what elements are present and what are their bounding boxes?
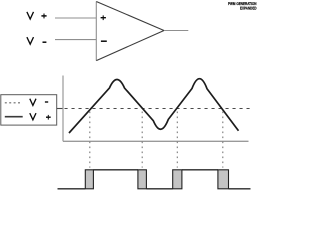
PWM high segment 2 xyxy=(182,169,218,171)
op-amp U1 comparator body xyxy=(96,2,164,61)
PWM transition rect 4 xyxy=(218,170,229,189)
triangle wave V+ xyxy=(69,79,239,133)
legend label V - xyxy=(30,99,36,106)
label V - xyxy=(27,37,34,44)
PWM low segment 2 xyxy=(146,188,172,190)
dashed drop line crossing 2 xyxy=(141,112,143,168)
wire V+ input xyxy=(55,17,96,19)
legend label V + xyxy=(30,113,36,120)
y axis xyxy=(62,76,64,142)
x axis xyxy=(63,140,249,142)
dashed drop line crossing 4 xyxy=(222,112,224,168)
label V + xyxy=(27,12,34,19)
legend box xyxy=(1,95,57,125)
dashed drop line crossing 1 xyxy=(89,112,91,168)
op-amp pin + (non-inverting) xyxy=(101,17,106,19)
PWM transition rect 1 xyxy=(85,170,93,189)
PWM transition rect 2 xyxy=(138,170,147,189)
op-amp pin - (inverting) xyxy=(101,40,107,42)
legend dotted sample V- xyxy=(5,102,22,104)
wire V- input xyxy=(55,39,96,41)
legend solid sample V+ xyxy=(5,116,23,118)
PWM low segment 3 xyxy=(229,188,251,190)
PWM low segment 1 xyxy=(58,188,86,190)
dashed drop line crossing 3 xyxy=(176,112,178,168)
svg-text:EXPANDED: EXPANDED xyxy=(240,6,257,11)
V- threshold dashed line xyxy=(65,108,251,110)
PWM high segment 1 xyxy=(93,169,137,171)
PWM transition rect 3 xyxy=(173,170,182,189)
legend tick to axis xyxy=(57,108,63,110)
wire output xyxy=(164,30,188,32)
